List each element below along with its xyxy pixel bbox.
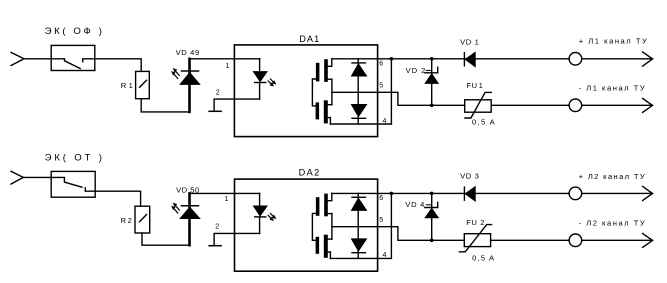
svg-text:R: R <box>121 216 127 225</box>
out arrow ch2 plus <box>643 186 653 200</box>
svg-text:2: 2 <box>215 224 219 231</box>
svg-text:- Л1 канал ТУ: - Л1 канал ТУ <box>579 84 646 93</box>
DA2 MOSFET Q-top channel bar <box>324 194 328 217</box>
optocoupler DA1 box <box>234 45 377 137</box>
svg-text:2: 2 <box>216 89 220 96</box>
DA2 MOSFET Q-bot drain lead <box>328 252 331 258</box>
DA1 body-diode column axis <box>357 59 359 124</box>
svg-text:FU: FU <box>467 81 478 90</box>
contact block EK(OT) box <box>51 171 95 197</box>
wire circle to out arrow ch2 plus <box>582 192 653 194</box>
svg-text:6: 6 <box>379 195 383 202</box>
DA2 body-diode column axis <box>357 193 359 258</box>
svg-text:VD 49: VD 49 <box>176 48 200 57</box>
junction dot VD4 top <box>430 192 434 196</box>
wire FU2 to circle ch2 minus <box>491 239 569 241</box>
pin6-pin4 join vertical ch2 <box>390 193 392 258</box>
contact block EK(OF) box <box>51 45 95 70</box>
svg-text:DA1: DA1 <box>299 34 319 44</box>
DA1 gate tie line <box>312 79 316 106</box>
junction dot pin6 join ch1 <box>390 57 394 61</box>
DA1 body diode bottom <box>352 105 367 117</box>
svg-text:1: 1 <box>479 81 484 90</box>
DA2 mid rail (pin5) <box>332 227 464 241</box>
resistor R1 <box>136 71 150 98</box>
switch contact ch1 <box>51 59 95 69</box>
LED VD50 <box>188 193 191 245</box>
fuse FU1 <box>465 100 492 112</box>
VD49 light arrows <box>175 71 179 76</box>
DA2 MOSFET Q-bot gate bar <box>316 237 320 254</box>
terminal circle ch2 plus <box>569 187 582 200</box>
DA2 bottom rail (pin4) <box>330 257 391 259</box>
wire VD49 to DA1 pin1 <box>190 58 260 60</box>
svg-text:1: 1 <box>129 81 134 90</box>
svg-text:0,5 A: 0,5 A <box>472 253 495 262</box>
wire input to EK2 box <box>23 176 51 178</box>
out arrow ch1 plus <box>643 52 653 66</box>
svg-text:VD 3: VD 3 <box>460 172 479 181</box>
junction dot VD4 bottom <box>430 239 434 243</box>
svg-text:5: 5 <box>379 83 383 90</box>
svg-text:R: R <box>121 81 127 90</box>
svg-text:VD 2: VD 2 <box>406 66 426 75</box>
svg-text:1: 1 <box>226 63 230 70</box>
DA2 MOSFET Q-bot source lead <box>327 238 332 240</box>
pin6-pin4 join vertical ch1 <box>390 59 392 124</box>
svg-text:- Л2 канал ТУ: - Л2 канал ТУ <box>579 219 646 228</box>
svg-text:FU: FU <box>466 218 477 227</box>
wire circle to out arrow ch1 minus <box>582 104 653 106</box>
zener VD2 <box>431 59 433 106</box>
DA1 common source vertical <box>331 79 333 105</box>
DA2 common source vertical <box>331 214 333 240</box>
wire circle to out arrow ch1 plus <box>582 58 653 60</box>
VD50 light arrows <box>175 205 179 210</box>
wire input to EK1 box <box>24 58 51 60</box>
svg-text:4: 4 <box>383 118 387 125</box>
DA2 MOSFET Q-top gate bar <box>316 197 320 216</box>
svg-text:2: 2 <box>128 216 133 225</box>
svg-text:5: 5 <box>379 217 383 224</box>
junction dot VD2 bottom <box>430 104 434 108</box>
zener VD4 <box>431 193 433 240</box>
DA1 top rail (pin6) <box>332 58 569 60</box>
DA2 MOSFET Q-bot channel bar <box>324 235 328 258</box>
DA1 internal LED <box>259 59 261 72</box>
DA1 mid rail (pin5) <box>332 92 465 105</box>
svg-text:0,5 A: 0,5 A <box>472 117 496 126</box>
DA1 MOSFET Q-top gate bar <box>316 63 320 82</box>
svg-text:6: 6 <box>379 61 383 68</box>
wire pin2 to ground ch1 <box>214 99 260 111</box>
svg-text:+ Л2 канал ТУ: + Л2 канал ТУ <box>579 172 646 181</box>
DA1 body diode top <box>352 62 366 64</box>
DA2 gate tie line <box>312 213 316 240</box>
terminal circle ch2 minus <box>569 234 582 247</box>
diode VD3 <box>463 187 465 200</box>
svg-text:VD 4: VD 4 <box>405 200 425 209</box>
DA1 MOSFET Q-top drain lead <box>328 59 332 67</box>
wire EK2 to R2 <box>95 191 140 206</box>
svg-text:1: 1 <box>225 196 229 203</box>
input arrow ch2 <box>11 171 23 184</box>
wire R1 to VD49 <box>141 99 188 112</box>
DA1 MOSFET Q-bot gate bar <box>316 102 320 119</box>
svg-text:4: 4 <box>383 252 387 259</box>
junction dot pin6 join ch2 <box>390 192 394 196</box>
DA1 MOSFET Q-top channel bar <box>324 59 328 82</box>
input arrow ch1 <box>11 52 24 65</box>
DA2 top rail (pin6) <box>332 192 569 194</box>
wire VD50 to DA2 pin1 <box>190 192 260 194</box>
DA1 MOSFET Q-top source lead <box>327 78 332 80</box>
svg-text:+ Л1 канал ТУ: + Л1 канал ТУ <box>579 36 648 45</box>
wire pin2 to ground ch2 <box>214 233 260 245</box>
DA1 MOSFET Q-bot source lead <box>327 104 332 106</box>
DA2 internal LED <box>259 193 261 206</box>
LED VD49 <box>188 59 191 112</box>
DA2 MOSFET Q-top drain lead <box>328 193 332 200</box>
terminal circle ch1 minus <box>569 99 582 112</box>
DA2 LED light arrows <box>268 215 271 218</box>
wire FU1 to circle ch1 minus <box>491 104 569 106</box>
resistor R2 <box>135 206 150 233</box>
DA1 bottom rail (pin4) <box>330 123 391 125</box>
optocoupler DA2 box <box>235 179 378 271</box>
svg-text:ЭК( ОТ ): ЭК( ОТ ) <box>45 153 105 164</box>
DA1 MOSFET Q-bot drain lead <box>328 118 331 124</box>
out arrow ch2 minus <box>643 233 653 247</box>
svg-text:2: 2 <box>480 218 485 227</box>
out arrow ch1 minus <box>643 98 653 112</box>
switch contact ch2 <box>51 177 95 191</box>
terminal circle ch1 plus <box>569 53 582 66</box>
junction dot VD2 top <box>430 57 434 61</box>
ground ch2 <box>209 245 221 247</box>
DA1 LED light arrows <box>268 81 271 84</box>
wire R2 to VD50 <box>142 233 188 245</box>
DA2 body diode top <box>352 196 366 198</box>
wire EK1 to R1 <box>95 59 141 72</box>
fuse FU2 <box>464 234 490 247</box>
DA2 MOSFET Q-top source lead <box>327 213 332 215</box>
svg-text:ЭК( ОФ ): ЭК( ОФ ) <box>45 26 105 37</box>
ground ch1 <box>209 110 221 112</box>
DA2 body diode bottom <box>352 239 367 251</box>
diode VD1 <box>463 53 465 66</box>
svg-text:DA2: DA2 <box>299 168 320 178</box>
DA1 MOSFET Q-bot channel bar <box>324 100 328 123</box>
wire circle to out arrow ch2 minus <box>582 239 653 241</box>
svg-text:VD 1: VD 1 <box>460 37 479 46</box>
